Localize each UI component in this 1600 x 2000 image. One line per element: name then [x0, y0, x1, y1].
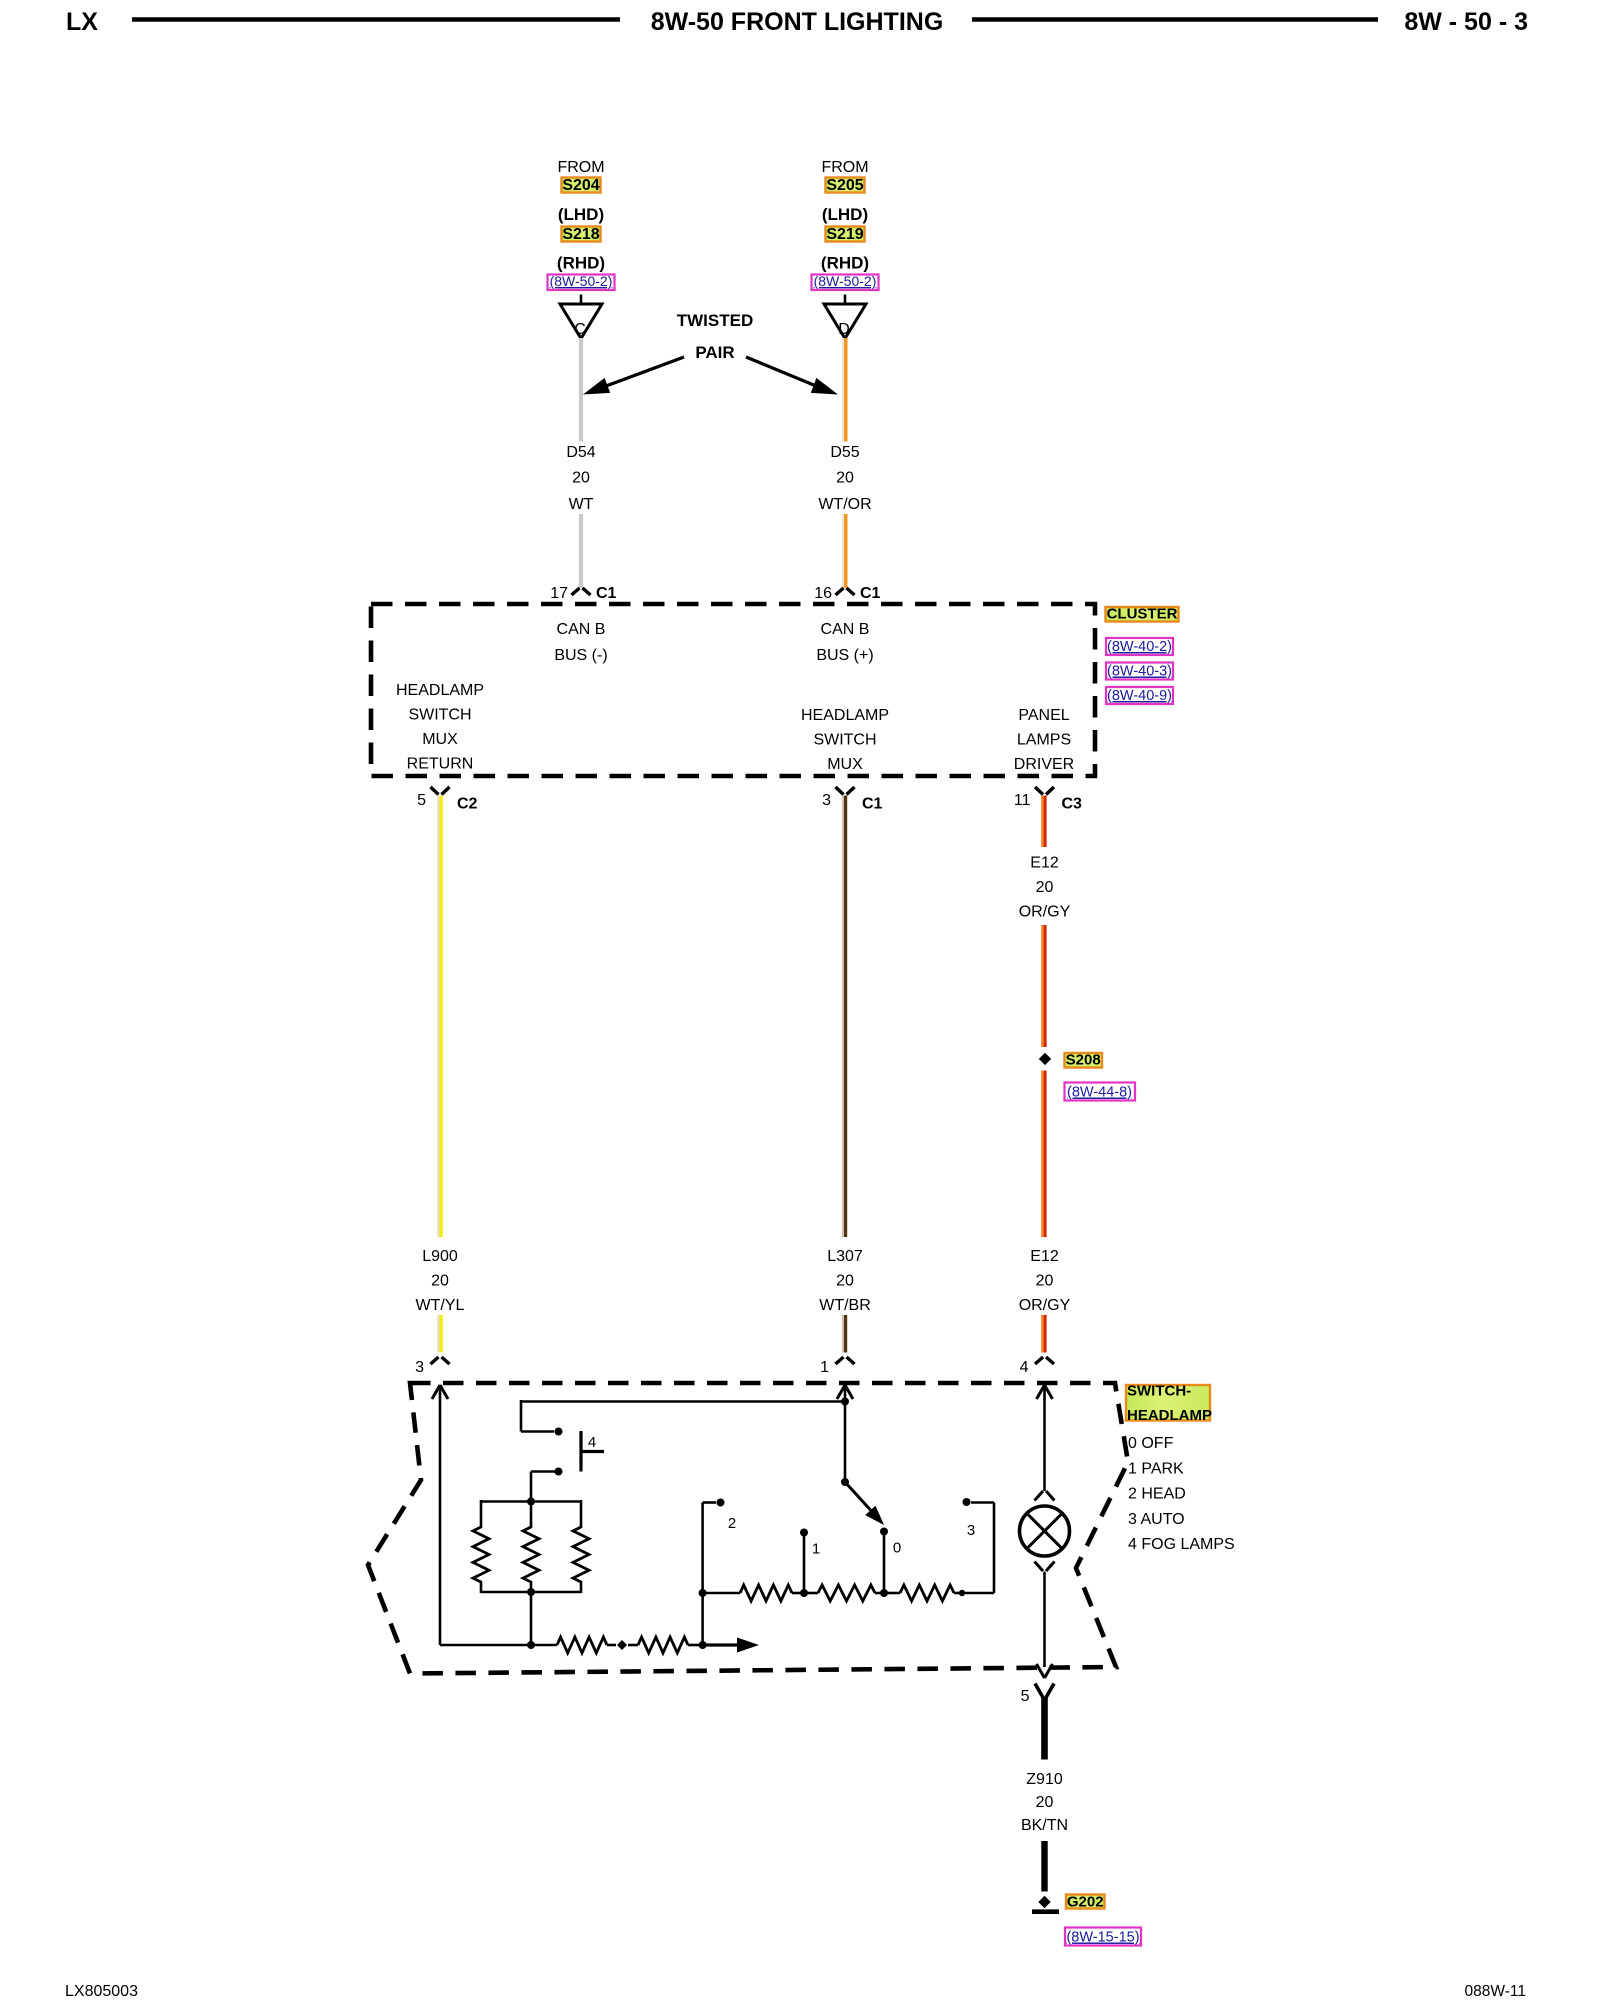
svg-text:S204: S204: [562, 177, 599, 194]
svg-text:CAN B: CAN B: [557, 621, 606, 638]
wire Z910 segment upper (BK/TN): [1041, 1697, 1048, 1760]
resistor bank bottom rail: [481, 1591, 581, 1594]
splice label S208: [1065, 1052, 1103, 1069]
connector pin 17 chevron: [572, 588, 591, 595]
svg-text:SWITCH: SWITCH: [813, 732, 876, 749]
off-page connector triangle C: [560, 304, 602, 339]
resistor R4 (wiper left): [557, 1637, 616, 1653]
pin 11 number: [1014, 792, 1031, 809]
resistor R8 (chain right): [884, 1585, 962, 1601]
switch position 4 FOG LAMPS: [1128, 1536, 1235, 1553]
svg-text:L900: L900: [422, 1248, 458, 1265]
connector pin 11 chevron (C3): [1035, 787, 1054, 795]
connector pin 1 chevron (switch): [836, 1357, 855, 1364]
svg-text:(LHD): (LHD): [822, 205, 868, 224]
switch position 0 OFF: [1128, 1435, 1174, 1452]
ground junction diamond: [1038, 1896, 1050, 1908]
svg-text:OR/GY: OR/GY: [1019, 1297, 1071, 1314]
wire E12 (OR/GY) segment upper: [1042, 796, 1045, 848]
svg-text:(8W-15-15): (8W-15-15): [1066, 1930, 1139, 1946]
svg-text:5: 5: [417, 792, 426, 809]
junction bottom rail: [527, 1588, 535, 1596]
svg-text:BK/TN: BK/TN: [1021, 1817, 1068, 1834]
switch blade pivot: [841, 1478, 849, 1486]
wire contact4-to-resistors: [531, 1472, 557, 1503]
connector pin 3 chevron (switch): [431, 1357, 450, 1364]
resistor R5 (wiper right): [628, 1637, 703, 1653]
svg-text:E12: E12: [1030, 1248, 1059, 1265]
wire E12 (OR/GY) segment mid: [1042, 925, 1045, 1047]
svg-text:MUX: MUX: [827, 756, 863, 773]
svg-text:(8W-50-2): (8W-50-2): [550, 273, 613, 289]
svg-text:20: 20: [836, 1273, 854, 1290]
svg-text:WT: WT: [569, 496, 594, 513]
svg-text:20: 20: [836, 470, 854, 487]
wire E12 (OR/GY) segment lower: [1042, 1071, 1045, 1238]
junction contact 0: [880, 1589, 888, 1597]
component box CLUSTER (dashed): [371, 604, 1095, 776]
svg-text:(RHD): (RHD): [821, 254, 869, 273]
svg-text:(8W-40-2): (8W-40-2): [1107, 639, 1172, 655]
svg-text:(RHD): (RHD): [557, 254, 605, 273]
wire internal top-left bend: [521, 1400, 554, 1432]
contact 2: [717, 1499, 725, 1507]
svg-text:FROM: FROM: [821, 159, 868, 176]
pin 5 number: [417, 792, 426, 809]
pin 3 number (switch): [415, 1359, 424, 1376]
svg-text:D55: D55: [830, 444, 859, 461]
svg-text:HEADLAMP: HEADLAMP: [801, 707, 889, 724]
footer sheet code LX805003: [65, 1983, 138, 2000]
svg-text:D54: D54: [566, 444, 595, 461]
pin function HEADLAMP SWITCH MUX RETURN: [396, 682, 484, 773]
connector name C1 (pin 17): [596, 585, 617, 602]
svg-text:3 AUTO: 3 AUTO: [1128, 1511, 1185, 1528]
svg-text:CLUSTER: CLUSTER: [1107, 606, 1178, 623]
junction wiper / position-2 line: [699, 1641, 707, 1649]
node FROM label (right): [821, 159, 868, 176]
off-page connector C stub: [580, 295, 583, 304]
footer drawing code 088W-11: [1465, 1983, 1526, 2000]
link (8W-40-2): [1106, 638, 1173, 655]
svg-text:LAMPS: LAMPS: [1017, 732, 1071, 749]
svg-text:20: 20: [1036, 1794, 1054, 1811]
svg-text:RETURN: RETURN: [407, 756, 474, 773]
svg-text:4: 4: [1020, 1359, 1029, 1376]
svg-text:MUX: MUX: [422, 731, 458, 748]
twisted-pair arrow left: [583, 357, 684, 395]
svg-text:FROM: FROM: [557, 159, 604, 176]
svg-text:8W - 50 - 3: 8W - 50 - 3: [1404, 8, 1528, 36]
header title 8W-50 FRONT LIGHTING: [651, 8, 944, 36]
pin 4 number (switch): [1020, 1359, 1029, 1376]
svg-text:1: 1: [820, 1359, 829, 1376]
svg-text:LX805003: LX805003: [65, 1983, 138, 2000]
svg-text:Z910: Z910: [1026, 1771, 1063, 1788]
component label CLUSTER: [1106, 606, 1179, 623]
switch position 3 AUTO: [1128, 1511, 1185, 1528]
svg-text:WT/OR: WT/OR: [818, 496, 871, 513]
svg-text:1 PARK: 1 PARK: [1128, 1460, 1184, 1477]
contact 1: [800, 1529, 808, 1594]
wire label E12 (upper): [1030, 855, 1059, 872]
svg-text:4 FOG LAMPS: 4 FOG LAMPS: [1128, 1536, 1235, 1553]
wiper arrow: [703, 1638, 759, 1653]
svg-text:S208: S208: [1066, 1052, 1101, 1069]
net label CAN B BUS(-): [554, 621, 607, 664]
svg-text:2: 2: [728, 1515, 736, 1532]
svg-text:17: 17: [550, 585, 568, 602]
svg-text:LX: LX: [66, 8, 98, 36]
svg-text:L307: L307: [827, 1248, 863, 1265]
svg-text:C3: C3: [1062, 796, 1083, 813]
svg-text:C1: C1: [860, 585, 881, 602]
link (8W-40-9): [1106, 687, 1173, 704]
svg-text:G202: G202: [1067, 1894, 1104, 1911]
pin 16 number: [814, 585, 832, 602]
svg-text:HEADLAMP: HEADLAMP: [1127, 1407, 1212, 1424]
wire D54 segment (WT, white) upper: [579, 338, 583, 442]
pin 3 number (cluster): [822, 792, 831, 809]
pin 1 number (switch): [820, 1359, 829, 1376]
svg-text:WT/BR: WT/BR: [819, 1297, 871, 1314]
twisted-pair arrow right: [746, 357, 838, 395]
wire position-3 bend: [962, 1503, 994, 1594]
switch position label 1 (internal): [812, 1541, 820, 1558]
svg-text:16: 16: [814, 585, 832, 602]
wire gauge 20 (E12 lower): [1036, 1273, 1054, 1290]
wire label D54: [566, 444, 595, 461]
switch position label 0 (internal): [893, 1540, 901, 1557]
wire wiper run: [440, 1644, 557, 1647]
link (8W-40-3): [1106, 663, 1173, 680]
wire color WT (D54): [569, 496, 594, 513]
junction mid wiper: [617, 1640, 627, 1650]
wire gauge 20 (D54): [572, 470, 590, 487]
off-page connector triangle D: [824, 304, 866, 339]
svg-text:D: D: [838, 321, 850, 338]
svg-text:20: 20: [572, 470, 590, 487]
svg-text:C1: C1: [596, 585, 617, 602]
wire L307 (WT/BR) segment: [843, 796, 846, 1238]
component label SWITCH-HEADLAMP: [1126, 1383, 1212, 1425]
wire D55 segment (WT/OR) lower: [843, 514, 846, 588]
wire D55 segment (WT/OR) upper: [843, 338, 846, 442]
resistor R7 (chain mid): [804, 1585, 884, 1601]
svg-text:BUS (-): BUS (-): [554, 647, 607, 664]
ground label G202: [1066, 1894, 1105, 1911]
svg-text:0 OFF: 0 OFF: [1128, 1435, 1174, 1452]
wire contact 0 vertical: [880, 1528, 888, 1594]
svg-text:3: 3: [967, 1522, 975, 1539]
wire gauge 20 (E12 upper): [1036, 879, 1054, 896]
svg-text:CAN B: CAN B: [821, 621, 870, 638]
svg-text:4: 4: [588, 1434, 596, 1451]
contact 4 lower: [555, 1468, 563, 1476]
resistor R6 (chain left): [703, 1585, 804, 1601]
wire label L900: [422, 1248, 458, 1265]
contact 3: [963, 1498, 971, 1506]
resistor bank top rail: [481, 1500, 581, 1503]
header label LX: [66, 8, 98, 36]
wire label Z910: [1026, 1771, 1063, 1788]
wire label L307: [827, 1248, 863, 1265]
switch 4 blade bar: [581, 1431, 604, 1472]
contact 4 upper: [555, 1428, 563, 1436]
wire gauge 20 (L307): [836, 1273, 854, 1290]
wire E12 stub: [1042, 1315, 1045, 1353]
header rule left: [132, 17, 620, 22]
svg-text:3: 3: [822, 792, 831, 809]
splice label S205: [826, 177, 865, 194]
wire Z910 segment lower (BK/TN): [1041, 1841, 1047, 1892]
svg-text:5: 5: [1021, 1688, 1030, 1705]
svg-text:SWITCH-: SWITCH-: [1127, 1383, 1191, 1400]
panel lamp (illumination lamp symbol): [1020, 1506, 1070, 1556]
svg-text:1: 1: [812, 1541, 820, 1558]
svg-text:8W-50 FRONT LIGHTING: 8W-50 FRONT LIGHTING: [651, 8, 944, 36]
svg-text:BUS (+): BUS (+): [816, 647, 873, 664]
connector pin 5 chevron (C2): [431, 787, 450, 795]
wire lamp feed internal (bottom): [1037, 1572, 1053, 1679]
wire lamp feed internal (top): [1037, 1385, 1053, 1491]
splice label S219: [826, 226, 865, 243]
svg-text:WT/YL: WT/YL: [416, 1297, 465, 1314]
label (LHD) right: [822, 205, 868, 224]
svg-text:20: 20: [1036, 1273, 1054, 1290]
link (8W-50-2) left: [548, 273, 615, 290]
label TWISTED PAIR: [677, 311, 754, 362]
wire color OR/GY (upper): [1019, 904, 1071, 921]
header page number 8W-50-3: [1404, 8, 1528, 36]
lamp connector chevron lower: [1035, 1562, 1055, 1572]
switch position label 2 (internal): [728, 1515, 736, 1532]
wire color WT/BR: [819, 1297, 871, 1314]
wire gauge 20 (L900): [431, 1273, 449, 1290]
off-page connector D stub: [844, 295, 847, 304]
wire bank-to-wiper: [530, 1592, 533, 1645]
wire pin-1 internal vertical: [837, 1385, 853, 1482]
svg-text:S218: S218: [562, 226, 599, 243]
svg-text:(8W-40-3): (8W-40-3): [1107, 664, 1172, 680]
wire color WT/YL: [416, 1297, 465, 1314]
svg-text:C1: C1: [862, 796, 883, 813]
svg-text:OR/GY: OR/GY: [1019, 904, 1071, 921]
label (RHD) right: [821, 254, 869, 273]
svg-text:2 HEAD: 2 HEAD: [1128, 1486, 1186, 1503]
svg-text:(8W-44-8): (8W-44-8): [1067, 1085, 1132, 1101]
component box SWITCH-HEADLAMP (dashed outline): [368, 1383, 1128, 1674]
wire D54 segment (WT, white) lower: [579, 514, 583, 588]
connector name C1 (pin 3): [862, 796, 883, 813]
junction wiper line left: [527, 1641, 535, 1649]
ground G202 symbol: [1032, 1909, 1059, 1914]
link (8W-50-2) right: [812, 273, 879, 290]
connector name C3: [1062, 796, 1083, 813]
svg-text:S219: S219: [826, 226, 863, 243]
svg-text:(8W-40-9): (8W-40-9): [1107, 688, 1172, 704]
wire L307 stub: [843, 1315, 846, 1353]
svg-text:E12: E12: [1030, 855, 1059, 872]
svg-text:PANEL: PANEL: [1018, 707, 1069, 724]
svg-text:3: 3: [415, 1359, 424, 1376]
wire label E12 (lower): [1030, 1248, 1059, 1265]
pin 17 number: [550, 585, 568, 602]
svg-text:(8W-50-2): (8W-50-2): [814, 273, 877, 289]
splice label S218: [562, 226, 601, 243]
svg-text:088W-11: 088W-11: [1465, 1983, 1526, 2000]
connector pin 5 chevron (switch bottom): [1035, 1684, 1054, 1698]
wire color BK/TN: [1021, 1817, 1068, 1834]
svg-text:0: 0: [893, 1540, 901, 1557]
svg-text:C2: C2: [457, 796, 478, 813]
svg-text:11: 11: [1014, 792, 1031, 809]
resistor R1 (left vertical): [473, 1500, 489, 1593]
switch position 2 HEAD: [1128, 1486, 1186, 1503]
svg-text:20: 20: [1036, 879, 1054, 896]
wire gauge 20 (D55): [836, 470, 854, 487]
svg-text:S205: S205: [826, 177, 863, 194]
switch blade (wiper arm): [845, 1482, 884, 1525]
wire color WT/OR (D55): [818, 496, 871, 513]
splice label S204: [562, 177, 601, 194]
junction chain right: [959, 1590, 965, 1596]
switch position 1 PARK: [1128, 1460, 1184, 1477]
resistor R3 (right vertical): [573, 1500, 589, 1593]
pin function HEADLAMP SWITCH MUX: [801, 707, 889, 773]
svg-text:C: C: [574, 321, 586, 338]
wire mux-return internal (left vertical): [432, 1385, 448, 1645]
link (8W-44-8): [1065, 1083, 1136, 1101]
wire color OR/GY (lower): [1019, 1297, 1071, 1314]
connector name C1 (pin 16): [860, 585, 881, 602]
header rule right: [972, 17, 1378, 22]
lamp connector chevron upper: [1035, 1491, 1055, 1501]
connector pin 3 chevron (C1): [836, 787, 855, 795]
svg-text:PAIR: PAIR: [695, 343, 734, 362]
svg-text:HEADLAMP: HEADLAMP: [396, 682, 484, 699]
connector pin 4 chevron (switch): [1035, 1357, 1054, 1364]
svg-text:20: 20: [431, 1273, 449, 1290]
connector pin 16 chevron: [836, 588, 855, 595]
svg-text:TWISTED: TWISTED: [677, 311, 754, 330]
wire gauge 20 (Z910): [1036, 1794, 1054, 1811]
node FROM label (left): [557, 159, 604, 176]
wire label D55: [830, 444, 859, 461]
link (8W-15-15): [1065, 1928, 1141, 1946]
svg-text:(LHD): (LHD): [558, 205, 604, 224]
wire position-2 vertical: [703, 1503, 716, 1646]
label (RHD) left: [557, 254, 605, 273]
svg-text:SWITCH: SWITCH: [408, 707, 471, 724]
wire internal top feed: [521, 1400, 845, 1403]
pin 5 number (switch bottom): [1021, 1688, 1030, 1705]
switch position label 3 (internal): [967, 1522, 975, 1539]
switch position label 4 (internal): [588, 1434, 596, 1451]
pin function PANEL LAMPS DRIVER: [1014, 707, 1074, 773]
resistor R2 (middle vertical): [523, 1500, 539, 1593]
connector name C2: [457, 796, 478, 813]
junction contact 1: [800, 1589, 808, 1597]
junction top rail: [527, 1498, 535, 1506]
junction resistor chain left: [699, 1589, 707, 1597]
wire L900 (WT/YL) segment: [438, 796, 441, 1238]
splice S208 junction diamond: [1039, 1053, 1051, 1065]
junction top feed / pin-1 wire: [841, 1398, 849, 1406]
label (LHD) left: [558, 205, 604, 224]
net label CAN B BUS(+): [816, 621, 873, 664]
wire L900 stub: [438, 1315, 441, 1353]
svg-text:DRIVER: DRIVER: [1014, 756, 1074, 773]
